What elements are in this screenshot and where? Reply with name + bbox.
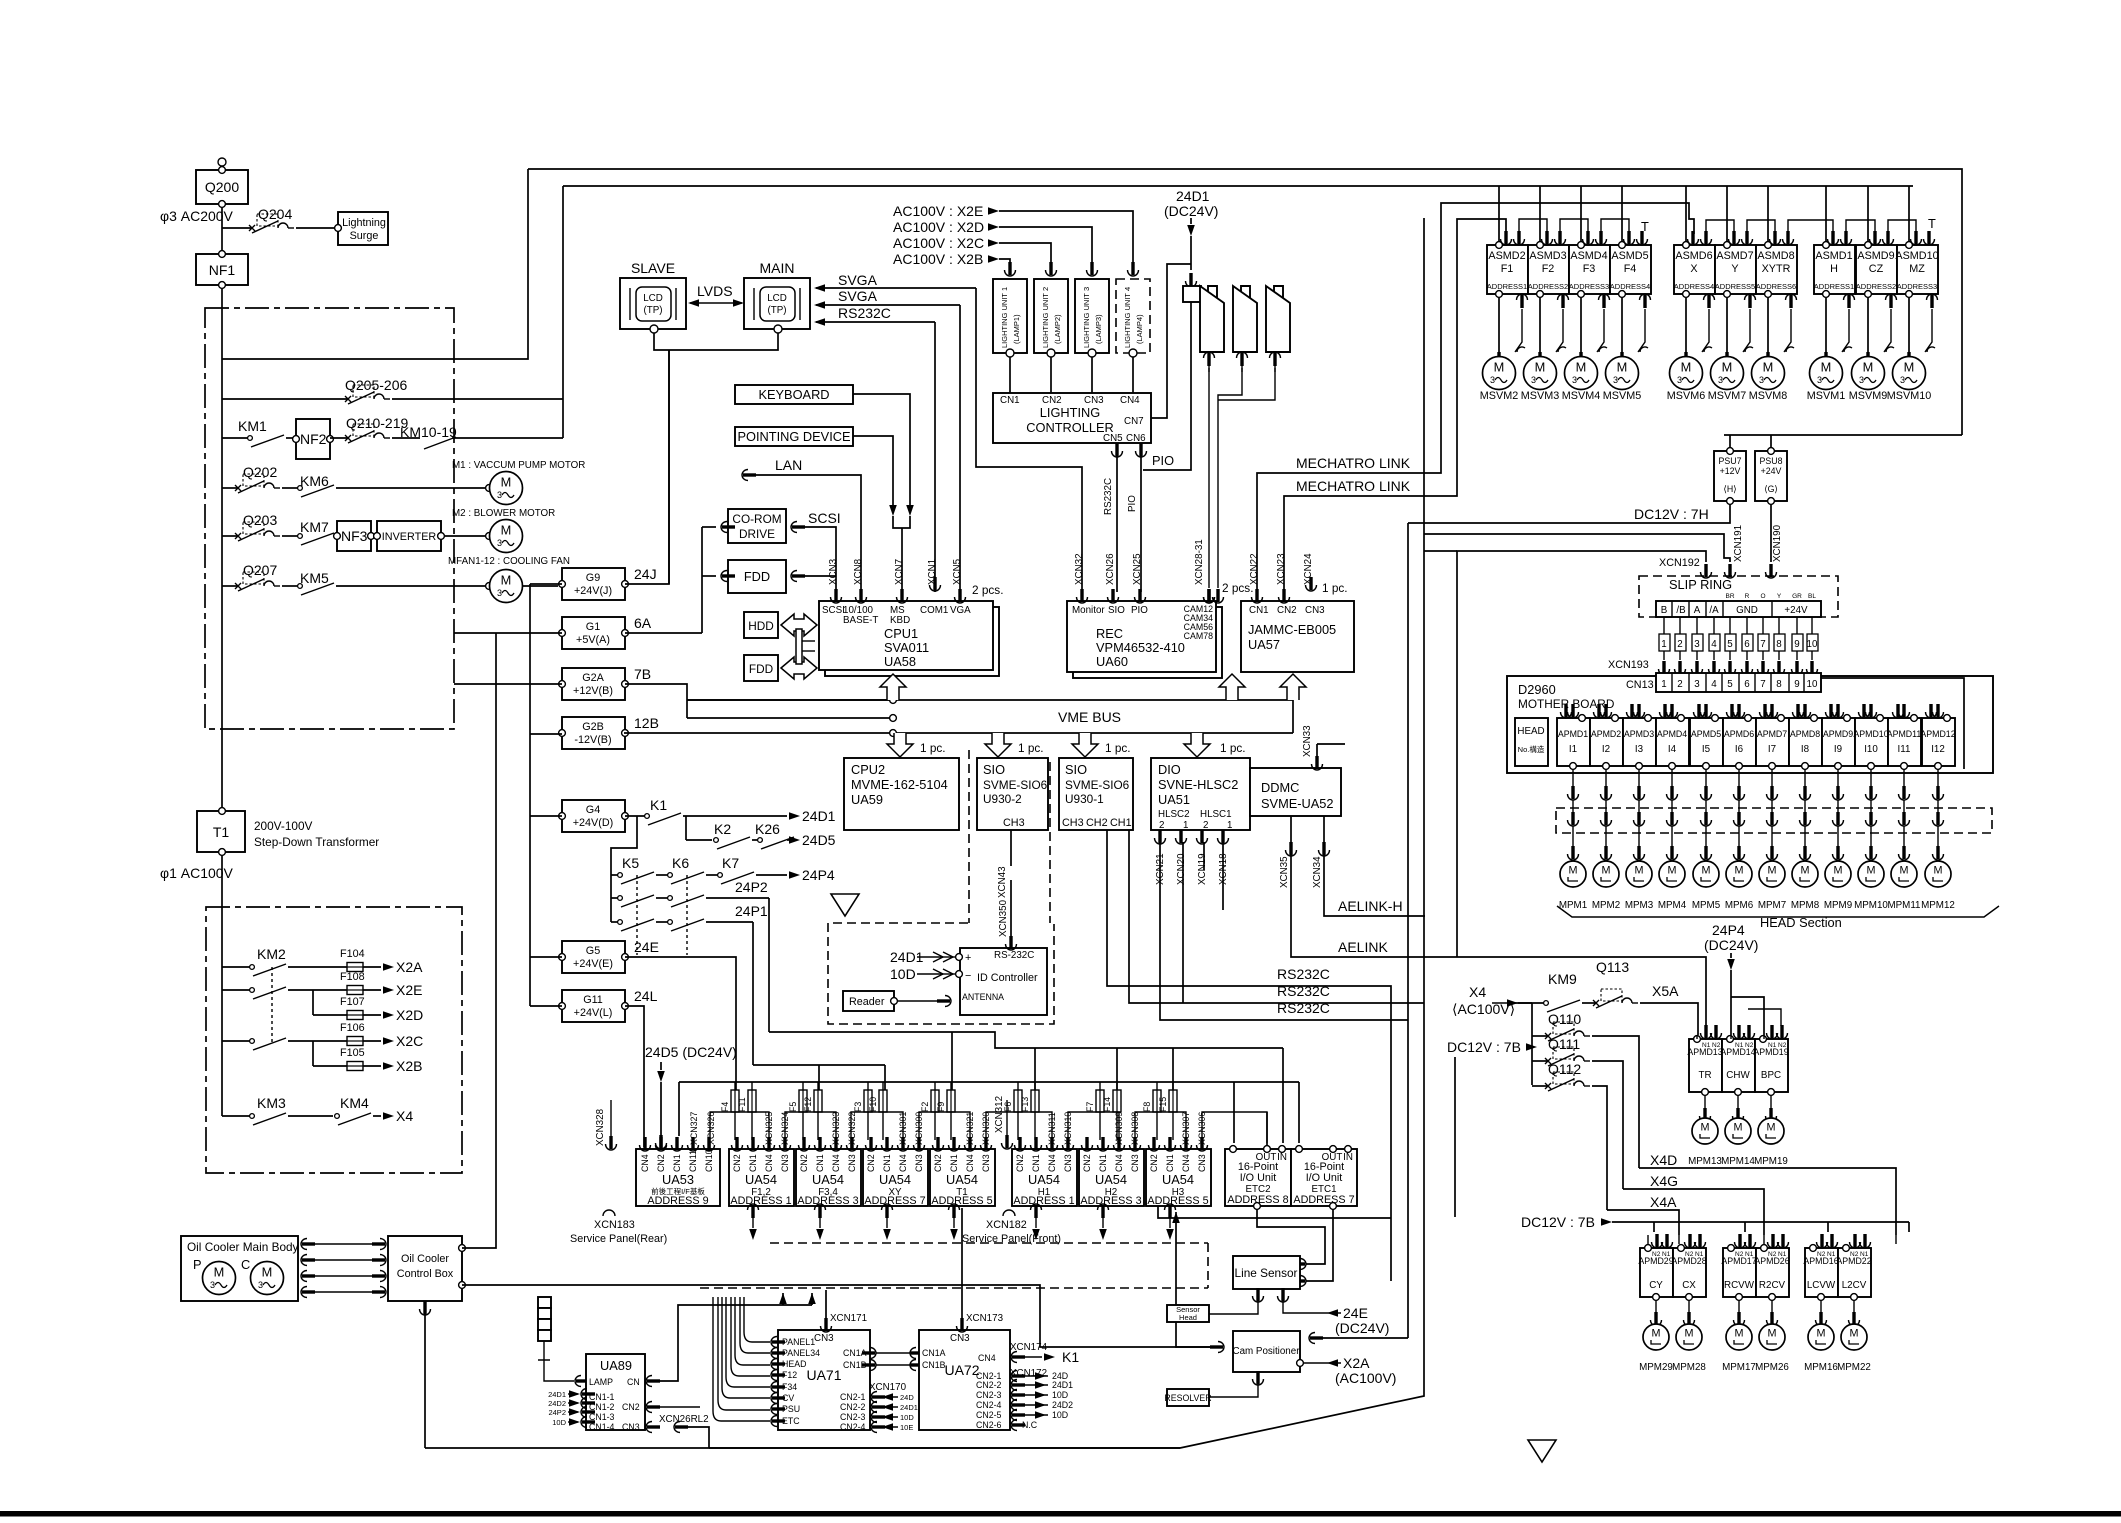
svg-text:CN2-4: CN2-4 [976,1400,1002,1410]
svg-text:VGA: VGA [950,605,971,616]
wire XCN191 feed [1424,534,1730,562]
connector CN6 PIO [1127,443,1174,592]
svg-text:F105: F105 [340,1047,365,1059]
svg-text:ADDRESS2: ADDRESS2 [1856,282,1896,291]
svg-text:N2: N2 [1712,1042,1721,1049]
head driver APMD6 [1723,704,1756,769]
JAMMC pin connectors [1252,577,1317,603]
svg-text:CN5: CN5 [1103,433,1123,444]
svg-text:AELINK: AELINK [1338,939,1388,955]
wires APMD to MPM [1568,770,1944,861]
svg-text:1 pc.: 1 pc. [1105,741,1131,755]
motor MPM7 [1758,861,1786,911]
wire oil cooler link 2 [301,1255,386,1266]
svg-text:XCN19: XCN19 [1197,853,1208,885]
breaker Q112 [1532,1061,1607,1210]
svg-text:CONTROLLER: CONTROLLER [1026,420,1113,435]
svg-text:K6: K6 [672,855,689,871]
motor MSVM1 [1807,298,1852,402]
motor MSVM9 [1849,298,1894,402]
svg-text:F3: F3 [1583,263,1596,275]
svg-text:UA54: UA54 [1028,1172,1060,1187]
svg-text:5: 5 [1727,679,1733,690]
svg-text:T: T [1641,219,1649,234]
svg-text:MAIN: MAIN [760,260,795,276]
servo driver APMD19 [1753,1025,1788,1167]
pin label XCN20 [1176,830,1188,885]
svg-text:I7: I7 [1768,744,1776,755]
VME arrow DIO [1184,733,1210,757]
head driver APMD9 [1822,704,1855,769]
svg-text:INVERTER: INVERTER [382,531,437,543]
svg-text:K26: K26 [755,821,780,837]
svg-text:N1: N1 [1662,1251,1671,1258]
svg-text:LIGHTING UNIT 1: LIGHTING UNIT 1 [1000,287,1009,348]
svg-text:XCN26: XCN26 [1105,553,1116,585]
motor MPM8 [1791,861,1820,911]
contactor KM7 [282,519,337,545]
svg-text:R2CV: R2CV [1759,1280,1786,1291]
motor MPM4 [1658,861,1687,911]
svg-text:XCN20: XCN20 [1176,853,1187,885]
svg-text:MSVM4: MSVM4 [1562,390,1600,402]
svg-text:CHW: CHW [1726,1070,1750,1081]
svg-text:+24V: +24V [1784,605,1808,616]
svg-text:UA57: UA57 [1248,637,1280,652]
svg-text:CN3: CN3 [847,1154,857,1172]
input 24D2 [548,1398,595,1409]
svg-text:UA54: UA54 [1095,1172,1127,1187]
svg-text:SVGA: SVGA [838,272,878,288]
svg-text:CN1: CN1 [1165,1154,1175,1172]
UA71 out 10E [871,1422,913,1433]
svg-text:24P4: 24P4 [802,867,835,883]
servo driver APMD13 [1687,1025,1722,1167]
svg-text:ADDRESS2: ADDRESS2 [1528,282,1568,291]
HDD unit [744,612,778,638]
svg-text:24D1: 24D1 [802,808,836,824]
wire LAN [742,457,861,592]
svg-text:X2E: X2E [396,982,422,998]
REC board UA60 [1067,601,1222,678]
svg-text:CN1: CN1 [748,1154,758,1172]
svg-text:NF1: NF1 [209,262,236,278]
svg-text:1 pc.: 1 pc. [1322,581,1348,595]
svg-text:F10: F10 [868,1097,878,1112]
fuse F11 [737,1082,756,1140]
svg-text:-12V(B): -12V(B) [574,734,611,746]
oil cooler control box [388,1236,465,1301]
svg-text:ADDRESS 5: ADDRESS 5 [931,1195,992,1207]
svg-text:SCSI: SCSI [822,605,845,616]
wire oil cooler link 4 [301,1287,386,1298]
I/O board UA54 #3 XY [863,1149,928,1207]
UA72 out N.C [1011,1420,1038,1431]
I/O board UA54 #1 F1,2 [729,1149,794,1207]
lightning surge absorber [335,212,388,245]
pin labels XCN309 XCN308 [1114,1112,1140,1145]
fuse F6 [1003,1082,1022,1140]
svg-text:MFAN1-12 : COOLING FAN: MFAN1-12 : COOLING FAN [448,556,570,567]
svg-text:HLSC1: HLSC1 [1200,809,1232,820]
svg-text:ADDRESS 5: ADDRESS 5 [1147,1195,1208,1207]
svg-text:(LAMP2): (LAMP2) [1053,314,1062,344]
svg-text:APMD8: APMD8 [1790,729,1820,739]
servo driver ASMD1 [1814,231,1855,308]
wire KBD merge [893,516,910,592]
svg-text:N1: N1 [1745,1251,1754,1258]
svg-text:PSU7: PSU7 [1719,456,1742,466]
contacts K5 K6 K7 [611,855,835,884]
connector XCN35 [1279,816,1297,888]
svg-text:AC100V : X2B: AC100V : X2B [893,251,983,267]
svg-text:Oil Cooler Main Body: Oil Cooler Main Body [187,1240,299,1254]
wires lamps to controller [1010,357,1133,393]
svg-text:6A: 6A [634,615,652,631]
servo daisy chain group2-3 [1706,220,1916,234]
svg-text:CZ: CZ [1869,263,1884,275]
motor MPM9 [1824,861,1852,911]
svg-text:Q202: Q202 [243,464,277,480]
pin labels XCN301 XCN300 [898,1112,924,1145]
svg-text:I1: I1 [1569,744,1577,755]
svg-text:SVME-SIO6: SVME-SIO6 [983,778,1048,792]
pin label XCN21 [1155,830,1167,885]
label X4 AC100V [1452,984,1532,1017]
fuse F105 [313,1047,422,1074]
svg-text:CPU1: CPU1 [884,626,918,641]
motor MSVM2 [1480,298,1525,402]
SLAVE LCD monitor [620,260,686,333]
UA54 #2 pin connectors [799,1137,858,1151]
svg-text:CN2: CN2 [866,1154,876,1172]
svg-text:F1: F1 [1501,263,1514,275]
svg-text:PIO: PIO [1152,453,1174,468]
fuse F7 [1085,1082,1104,1140]
svg-text:UA60: UA60 [1096,654,1128,669]
svg-text:CN3: CN3 [780,1154,790,1172]
svg-text:XCN327: XCN327 [689,1112,699,1145]
svg-text:2: 2 [1203,820,1208,831]
svg-text:F8: F8 [1142,1102,1152,1112]
svg-text:24P2: 24P2 [735,879,768,895]
svg-text:BPC: BPC [1761,1070,1781,1081]
UA54 #5 pin connectors [1015,1137,1074,1151]
fuse F104 [340,948,423,975]
connector XCN26RL2 [646,1414,709,1448]
UA71 fan-in wires [713,1297,770,1421]
svg-text:CN2-2: CN2-2 [976,1380,1002,1390]
lighting unit 1 LAMP1 [993,262,1027,357]
control cabinet dash-dot enclosure [205,308,454,729]
wire X4D [1639,1152,1896,1235]
svg-text:MSVM10: MSVM10 [1887,390,1931,402]
svg-text:GR: GR [1792,593,1802,600]
svg-text:UA54: UA54 [879,1172,911,1187]
input 24P2 [548,1407,595,1418]
svg-text:LIGHTING: LIGHTING [1040,405,1100,420]
connector XCN190 [1766,524,1784,578]
svg-text:MSVM2: MSVM2 [1480,390,1518,402]
svg-text:8: 8 [1776,639,1782,650]
svg-text:CN4: CN4 [1047,1154,1057,1172]
svg-text:M2 : BLOWER MOTOR: M2 : BLOWER MOTOR [452,508,555,519]
monitor AC bus [563,185,1913,187]
svg-text:C: C [241,1257,250,1272]
wire 24D1 to PIO [1143,302,1191,470]
breaker Q204 [222,206,334,233]
svg-text:DC12V : 7H: DC12V : 7H [1634,506,1709,522]
svg-text:I6: I6 [1735,744,1744,755]
wire X5A to APMD13 [1696,1035,1698,1039]
wire power drop ASMD5 [1621,186,1623,241]
svg-text:ADDRESS3: ADDRESS3 [1569,282,1609,291]
svg-text:ASMD9: ASMD9 [1857,250,1894,262]
motor MPM2 [1592,861,1620,911]
svg-text:K1: K1 [1062,1349,1079,1365]
svg-text:SCSI: SCSI [808,510,841,526]
svg-text:G2B: G2B [582,721,604,733]
svg-text:KM6: KM6 [300,473,329,489]
svg-text:I3: I3 [1635,744,1644,755]
wire CN1A CN1B links [862,1348,924,1371]
VME arrow SIO1 [985,733,1011,757]
svg-text:N1: N1 [1735,1042,1744,1049]
svg-text:GND: GND [1736,605,1758,616]
svg-text:MPM8: MPM8 [1791,900,1820,911]
wire power drop ASMD2 [1498,186,1500,241]
svg-text:IN: IN [1343,1152,1353,1163]
VME arrow SIO2 [1072,733,1098,757]
svg-text:X2A: X2A [396,959,423,975]
wire 24J to monitors [625,350,669,584]
svg-text:LAMP: LAMP [589,1377,613,1387]
svg-text:CN2-3: CN2-3 [840,1412,866,1422]
svg-text:/B: /B [1676,605,1686,616]
reader [843,991,951,1011]
svg-text:UA71: UA71 [806,1367,841,1383]
svg-text:SVME-UA52: SVME-UA52 [1261,796,1334,811]
distributor UA71 [778,1330,870,1432]
motor MPM12 [1921,861,1955,911]
svg-text:⟨G⟩: ⟨G⟩ [1764,484,1778,494]
svg-text:CN1: CN1 [815,1154,825,1172]
breaker Q207 [222,562,280,591]
svg-text:Q203: Q203 [243,512,277,528]
wire 7B [625,684,890,718]
svg-text:XCN21: XCN21 [1155,853,1166,885]
svg-text:+24V(D): +24V(D) [573,817,614,829]
svg-text:XCN322: XCN322 [847,1112,857,1145]
svg-text:XCN312: XCN312 [994,1096,1005,1133]
svg-text:G1: G1 [586,621,600,633]
svg-text:SVME-SIO6: SVME-SIO6 [1065,778,1130,792]
mechanical link KM2 [271,967,273,1043]
lighting unit 3 LAMP3 [1075,262,1109,357]
svg-text:M1 : VACCUM PUMP MOTOR: M1 : VACCUM PUMP MOTOR [452,460,585,471]
servo driver ASMD9 [1856,231,1897,308]
ribbon data arrows CPU1 to drives [781,614,817,636]
svg-text:NF2: NF2 [300,431,327,447]
svg-text:Reader: Reader [849,996,885,1008]
UA54 #7 pin connectors [1149,1137,1208,1151]
svg-text:XCN22: XCN22 [1249,553,1260,585]
pin labels XCN327 XCN326 [689,1112,716,1145]
wire bottom AELINK run [709,1447,1180,1449]
svg-text:2: 2 [1159,820,1164,831]
svg-text:CN2-4: CN2-4 [840,1422,866,1432]
svg-text:U930-1: U930-1 [1065,792,1104,806]
label DC12V 7B mid [1447,1039,1537,1217]
power supply G2A [559,666,652,700]
svg-text:UA58: UA58 [884,654,916,669]
signal tower lamp [538,1297,589,1387]
UA54 output connectors [748,1204,1176,1240]
svg-text:UA59: UA59 [851,792,883,807]
lighting unit 4 LAMP4 dashed [1116,262,1150,357]
REC pin connectors [1077,589,1215,603]
svg-text:A: A [1694,605,1701,616]
svg-text:DRIVE: DRIVE [739,527,775,541]
I/O board UA53 [636,1149,720,1207]
svg-text:RS232C: RS232C [1277,1000,1330,1016]
wire power drop ASMD9 [1867,186,1869,241]
svg-text:Surge: Surge [350,230,379,242]
svg-text:N2: N2 [1745,1042,1754,1049]
sensor head [1167,1300,1258,1322]
svg-text:LVDS: LVDS [697,283,733,299]
svg-text:APMD10: APMD10 [1853,729,1888,739]
svg-text:APMD11: APMD11 [1887,729,1922,739]
I/O board UA54 #5 H1 [1012,1149,1077,1207]
svg-text:CN1: CN1 [1249,605,1269,616]
UA72 out 10D [1011,1410,1068,1421]
svg-text:XCN173: XCN173 [966,1313,1004,1324]
motor MPM6 [1725,861,1754,911]
svg-text:N2: N2 [1778,1042,1787,1049]
svg-text:CN: CN [627,1377,640,1387]
svg-text:N2: N2 [1652,1251,1661,1258]
svg-text:N2: N2 [1817,1251,1826,1258]
svg-text:(DC24V): (DC24V) [1704,937,1758,953]
svg-text:K2: K2 [714,821,731,837]
camera wires to REC [1209,368,1275,588]
svg-text:N2: N2 [1735,1251,1744,1258]
wire XCN192 feed [1424,550,1457,552]
svg-text:PIO: PIO [1131,605,1148,616]
svg-text:CY: CY [1649,1280,1663,1291]
svg-text:CN2: CN2 [933,1154,943,1172]
continuation triangle upper [831,894,859,916]
svg-text:BASE-T: BASE-T [843,615,878,626]
svg-text:24D1: 24D1 [900,1403,918,1412]
svg-text:24P4: 24P4 [1712,922,1745,938]
svg-text:BL: BL [1808,593,1816,600]
inverter [374,521,445,551]
svg-text:CH2: CH2 [1086,817,1108,829]
camera junction tab [1183,286,1201,302]
svg-text:HEAD: HEAD [782,1359,806,1369]
UA54 #3 pin connectors [866,1137,925,1151]
ladder feed [611,816,637,922]
contact K2 K26 [686,816,836,849]
svg-text:ADDRESS 7: ADDRESS 7 [1293,1194,1354,1206]
svg-text:SVGA: SVGA [838,288,878,304]
AC bus to PSUs [528,169,1962,447]
svg-text:T: T [1928,216,1936,231]
power supply G11 [559,988,658,1022]
I/O board UA54 #7 H3 [1146,1149,1211,1207]
head driver APMD12 [1920,704,1955,769]
svg-text:I5: I5 [1702,744,1711,755]
wire 24P4 branch [1748,1009,1781,1026]
svg-text:Y: Y [1777,593,1782,600]
fuse F15 [1158,1082,1177,1140]
UA71 out 10D [871,1412,914,1423]
head driver APMD2 [1590,704,1623,769]
svg-text:F107: F107 [340,996,365,1008]
wire X4G [1623,1173,1764,1235]
svg-text:Head: Head [1179,1313,1197,1322]
svg-text:XCN193: XCN193 [1608,659,1649,671]
svg-text:+: + [965,952,971,964]
wire monitor commons [654,333,778,584]
wire AELINK-H [1324,854,1425,916]
connector XCN171 [821,1290,868,1332]
svg-text:XCN328: XCN328 [595,1108,606,1146]
wire 24P1 distribution [753,1065,885,1090]
svg-text:XCN326: XCN326 [706,1112,716,1145]
oil cooler main body [181,1236,299,1301]
fuse F8 [1142,1082,1161,1140]
SIO board U930-1 [1059,758,1133,830]
svg-text:XCN34: XCN34 [1312,856,1323,888]
svg-text:F3: F3 [853,1102,863,1112]
svg-text:H: H [1830,263,1838,275]
svg-text:XCN8: XCN8 [853,558,864,585]
wire RS232C 3 [1160,830,1408,1020]
svg-text:(DC24V): (DC24V) [1164,203,1218,219]
svg-text:CN2: CN2 [656,1154,666,1172]
svg-text:ADDRESS 3: ADDRESS 3 [797,1195,858,1207]
svg-text:KM3: KM3 [257,1095,286,1111]
svg-text:UA54: UA54 [745,1172,777,1187]
breaker Q202 [222,464,280,493]
servo daisy chain group1 [1519,219,1629,234]
svg-text:(LAMP3): (LAMP3) [1094,314,1103,344]
distributor UA72 [919,1330,1010,1430]
svg-text:7: 7 [1760,639,1765,650]
svg-text:12B: 12B [634,715,659,731]
svg-text:CN1A: CN1A [922,1348,946,1358]
UA54 #6 pin connectors [1082,1137,1141,1151]
motor MPM1 [1559,861,1587,911]
wire AC100V X2B [893,251,1010,267]
motor M2 [445,520,523,553]
head driver APMD11 [1887,704,1922,769]
fuse F3 [853,1082,872,1140]
svg-text:CN2-3: CN2-3 [976,1390,1002,1400]
pin labels XCN325 XCN324 [764,1112,790,1145]
fuse F14 [1102,1082,1121,1140]
connector XCN312 [994,1096,1013,1149]
svg-text:DC12V : 7B: DC12V : 7B [1521,1214,1595,1230]
svg-text:CH3: CH3 [1062,817,1084,829]
pin labels XCN321 XCN320 [965,1112,991,1145]
svg-text:XCN23: XCN23 [1276,553,1287,585]
fuse F106 [340,1022,423,1049]
svg-text:ADDRESS 9: ADDRESS 9 [647,1195,708,1207]
